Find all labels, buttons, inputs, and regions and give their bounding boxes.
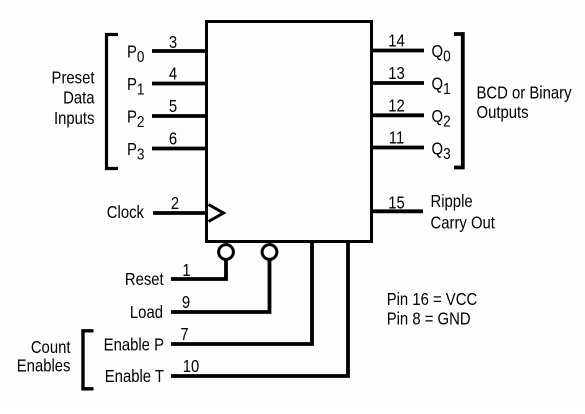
clock edge-trigger symbol (pin 2): [209, 205, 224, 222]
wire Enable T (pin 10): [171, 240, 348, 376]
note Pin 16 = VCC / Pin 8 = GND: [387, 290, 478, 329]
svg-text:10: 10: [183, 357, 200, 376]
svg-text:7: 7: [180, 325, 188, 344]
wire Q0 (pin 14): [370, 49, 424, 53]
inversion bubble (Reset, pin 1): [219, 245, 234, 260]
count enables bracket: [83, 331, 94, 389]
svg-text:Data: Data: [63, 89, 95, 108]
wire Load (pin 9): [171, 260, 270, 313]
wire P0 (pin 3): [152, 49, 208, 53]
svg-text:Outputs: Outputs: [477, 103, 529, 122]
svg-text:Load: Load: [130, 303, 163, 322]
svg-text:3: 3: [169, 33, 177, 52]
svg-text:2: 2: [171, 194, 179, 213]
svg-text:12: 12: [388, 96, 405, 115]
wire Enable P (pin 7): [171, 240, 312, 344]
svg-text:14: 14: [388, 31, 405, 50]
wire Clock (pin 2): [153, 211, 208, 215]
svg-text:Inputs: Inputs: [54, 109, 95, 128]
IC body U1 (4-bit synchronous counter): [207, 22, 372, 242]
preset inputs bracket: [107, 35, 119, 169]
svg-text:Pin 8 = GND: Pin 8 = GND: [387, 309, 471, 328]
svg-text:Pin 16 = VCC: Pin 16 = VCC: [387, 290, 478, 309]
svg-text:13: 13: [388, 64, 405, 83]
svg-text:Enable P: Enable P: [104, 335, 164, 354]
svg-text:Ripple: Ripple: [431, 192, 473, 211]
wire Q2 (pin 12): [370, 113, 424, 117]
wire P1 (pin 4): [152, 82, 208, 86]
svg-text:6: 6: [169, 129, 177, 148]
svg-text:Enable T: Enable T: [105, 367, 164, 386]
svg-text:Preset: Preset: [52, 68, 95, 87]
svg-text:5: 5: [169, 97, 177, 116]
label Preset Data Inputs: [52, 68, 96, 128]
svg-text:Clock: Clock: [107, 203, 145, 222]
outputs bracket: [454, 34, 463, 168]
svg-text:Carry Out: Carry Out: [431, 213, 496, 232]
svg-text:Reset: Reset: [125, 270, 164, 289]
wire Ripple Carry Out (pin 15): [370, 209, 423, 213]
wire P2 (pin 5): [152, 114, 208, 118]
svg-text:1: 1: [182, 261, 190, 280]
inversion bubble (Load, pin 9): [262, 245, 277, 260]
node label Ripple Carry Out: [431, 192, 496, 233]
svg-text:11: 11: [389, 128, 404, 147]
label Count Enables: [17, 338, 71, 376]
wire Reset (pin 1): [171, 260, 226, 280]
label BCD or Binary Outputs: [477, 84, 573, 123]
svg-text:4: 4: [169, 64, 177, 83]
svg-text:Count: Count: [31, 338, 71, 357]
wire Q1 (pin 13): [370, 81, 424, 85]
wire Q3 (pin 11): [370, 146, 424, 150]
svg-text:Enables: Enables: [17, 356, 71, 375]
wire P3 (pin 6): [152, 147, 208, 151]
svg-text:9: 9: [182, 293, 190, 312]
svg-text:15: 15: [388, 193, 405, 212]
svg-text:BCD or Binary: BCD or Binary: [477, 84, 573, 103]
